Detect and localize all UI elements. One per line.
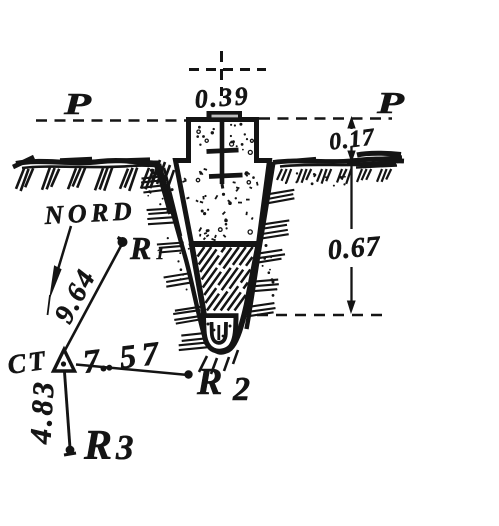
pit wall right [247,162,274,329]
point R1 [118,237,128,247]
svg-text:NORD: NORD [43,196,137,230]
monument body outline (above-ground block + buried trapezoid) [176,120,270,244]
svg-text:0.17: 0.17 [328,124,377,155]
centre mark horizontal dashed line [189,68,266,71]
datum dashed line left [36,119,187,122]
ground hatch left [16,160,174,191]
svg-text:R: R [83,423,112,469]
line CT to R3 (4.83) [65,372,71,448]
point R2 [184,370,192,378]
station CT triangle [54,350,75,372]
ground surface left [13,157,160,168]
label R1 [129,230,164,266]
engraved cross on monument [207,122,243,189]
svg-text:1: 1 [156,246,164,263]
pit wall left [155,163,207,344]
dimension line 0.17 [348,118,355,162]
concrete stipple texture [183,123,258,241]
pipe at monument tip [201,317,239,352]
hatch marks below tip [199,350,238,374]
soil dots right of pit [285,172,346,186]
monument cap stone [207,111,243,120]
north arrow [48,226,72,315]
svg-text:0.39: 0.39 [194,81,251,114]
pit wall left hatch ladders [141,176,207,350]
svg-text:2: 2 [232,371,250,408]
svg-text:P: P [376,85,406,120]
label R3 [83,423,134,469]
pit wall right hatch ladders [248,190,294,316]
point on CT-R2 line [101,366,107,372]
line CT to R1 (9.64) [64,244,122,352]
concrete/footing boundary line [191,241,260,247]
stray soil dots along pit walls [147,169,277,297]
hatched footing section [198,247,253,311]
svg-text:0.67: 0.67 [327,231,383,267]
svg-text:R: R [196,361,222,403]
centre mark vertical dashed line [220,51,223,96]
svg-text:3: 3 [115,428,134,467]
line CT to R2 (7.57) [76,365,188,376]
monument tip outline [192,244,259,352]
svg-text:CT: CT [6,345,50,380]
label R2 [196,361,250,408]
datum dashed line right [259,117,392,120]
lower datum dashed line [257,314,390,317]
svg-text:P: P [63,86,93,121]
dimension line 0.67 [348,166,356,313]
ground surface right [273,153,404,167]
point R3 [64,446,76,455]
svg-text:R: R [129,230,151,266]
svg-text:4.83: 4.83 [24,378,60,445]
ground hatch right [277,169,391,184]
